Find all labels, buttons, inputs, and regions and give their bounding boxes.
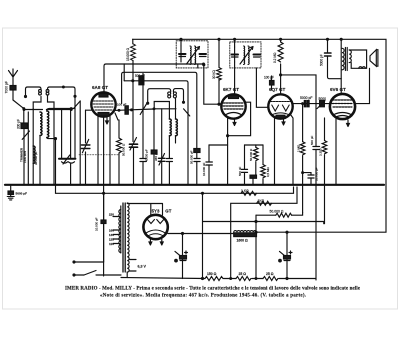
resistor 30 Kohm <box>217 38 222 104</box>
output transformer <box>340 38 366 93</box>
svg-text:6A8 GT: 6A8 GT <box>92 85 108 90</box>
taps <box>113 216 120 218</box>
svg-text:25 Ω: 25 Ω <box>239 272 247 276</box>
svg-text:15.000 Ω: 15.000 Ω <box>126 47 130 61</box>
coil bottom bars <box>23 101 80 110</box>
svg-text:50.000 Ω: 50.000 Ω <box>122 143 126 156</box>
HV wire to 5Y3 <box>127 204 162 216</box>
wave switch lever <box>13 100 24 109</box>
heater bottom line <box>126 272 128 278</box>
svg-text:50.000 pF: 50.000 pF <box>189 150 193 164</box>
capacitor blob on osc wire <box>151 150 157 154</box>
resistor 15.000 ohm <box>131 39 136 141</box>
filter cap 2 <box>279 232 292 278</box>
6K7 legs <box>227 118 229 185</box>
svg-text:1 KΩ: 1 KΩ <box>241 189 249 193</box>
tone cap 5000pF <box>325 38 342 78</box>
cap 50.000pF blob <box>194 149 200 186</box>
IF transformer 1 <box>176 38 208 68</box>
screen feed wire <box>104 64 204 92</box>
svg-text:500 pF: 500 pF <box>238 166 242 176</box>
500pF padder wire <box>124 64 188 185</box>
svg-text:10.000 pF: 10.000 pF <box>95 217 99 231</box>
6K7 plate to IFT2 <box>234 62 236 94</box>
svg-text:IMER RADIO - Mod. MILLY - Prim: IMER RADIO - Mod. MILLY - Prima e second… <box>65 287 361 292</box>
tube 6A8 GT <box>91 92 115 116</box>
IFT1 to 6K7 grid <box>203 64 222 106</box>
wire padder drop <box>142 73 144 158</box>
svg-text:0.2 MΩ: 0.2 MΩ <box>273 52 277 63</box>
resistor 150 ohm <box>205 277 223 281</box>
5Y3 output <box>168 233 234 235</box>
variable capacitor C-tune1 <box>59 155 75 164</box>
wire osc coil top <box>168 102 170 120</box>
switch <box>73 261 121 276</box>
wire osc coil bottom <box>168 136 170 158</box>
choke 1600 ohm <box>234 231 257 237</box>
screen line <box>203 222 324 224</box>
cathode bypass <box>313 134 320 280</box>
variable capacitor C-tune2 <box>81 139 90 152</box>
svg-text:150 Ω: 150 Ω <box>207 272 217 276</box>
AVC wire <box>281 75 316 134</box>
oscillator coupling loops <box>140 89 190 116</box>
trimmer arrow <box>22 131 29 139</box>
tube 6Q7 GT <box>268 94 292 118</box>
resistor 50.000 ohm B+ <box>256 213 303 279</box>
svg-text:0,5 MΩ: 0,5 MΩ <box>266 166 270 177</box>
svg-text:1 MΩ: 1 MΩ <box>297 144 301 152</box>
capacitor 100pF <box>270 76 275 90</box>
svg-text:5000 pF: 5000 pF <box>300 96 312 100</box>
gang tuning dashed link <box>79 154 119 156</box>
svg-text:1KΩ: 1KΩ <box>258 199 265 203</box>
cap 10000pF out <box>303 173 314 185</box>
svg-text:125: 125 <box>109 238 114 242</box>
padder coil <box>33 146 35 163</box>
heater arrow 6A8 <box>106 117 109 124</box>
svg-text:50.000 Ω: 50.000 Ω <box>270 210 284 214</box>
svg-text:220: 220 <box>109 213 114 217</box>
speaker <box>370 50 378 66</box>
top HT wire <box>133 39 387 232</box>
tube 5Y3 GT <box>143 215 167 239</box>
wire verticals left section <box>27 112 29 185</box>
svg-text:500 pF: 500 pF <box>310 135 314 145</box>
6V6 legs <box>335 119 337 186</box>
tube 6K7 GT <box>221 94 245 118</box>
main ground bus <box>5 184 384 186</box>
coupling caps 5000pF to 6V6 <box>293 101 331 109</box>
tuning coil windings <box>40 111 49 137</box>
svg-text:110: 110 <box>109 242 114 246</box>
svg-text:GT: GT <box>165 209 171 214</box>
5Y3 legs <box>149 239 152 245</box>
capacitor 7000pF antenna <box>10 86 16 101</box>
svg-text:140: 140 <box>109 233 114 237</box>
ground cap 5000pF <box>7 186 14 200</box>
6Q7 grid drop <box>280 75 282 94</box>
wire osc coil top right <box>175 98 177 119</box>
wire trimmer 365pF drop <box>161 109 163 159</box>
heater stubs <box>130 259 137 261</box>
capacitor 200pF <box>21 109 28 185</box>
resistor 1 Mohm <box>300 142 305 213</box>
grid leak vertical <box>302 104 304 142</box>
wire osc coil bottom right <box>175 136 177 143</box>
resistor 25 ohm b <box>263 277 278 281</box>
trimmer 500pF osc <box>158 154 165 186</box>
resistor 0.5 Mohm volume <box>261 145 266 185</box>
coil B top/bottom corners <box>47 109 74 112</box>
resistor 0.2 Mohm <box>278 38 283 76</box>
wire osc junction to bus <box>153 109 155 185</box>
resistor 25 ohm a <box>236 277 251 281</box>
IF transformer 2 <box>230 38 261 68</box>
6Q7 legs <box>274 118 276 186</box>
antenna coil L1 <box>25 87 42 109</box>
vertical drop left <box>202 193 204 278</box>
svg-text:1600 Ω: 1600 Ω <box>237 239 248 243</box>
svg-text:6,3 V: 6,3 V <box>138 265 147 269</box>
svg-text:5000 pF: 5000 pF <box>16 192 28 196</box>
svg-text:100 pF: 100 pF <box>264 76 274 80</box>
resistor 50.000 ohm <box>117 138 122 185</box>
svg-text:5Y3: 5Y3 <box>152 209 160 214</box>
below bus: heater line <box>56 186 294 193</box>
svg-text:7000 pF: 7000 pF <box>5 81 9 93</box>
resistor 1 Kohm heater <box>241 191 257 195</box>
trimmer cap oscillator grid <box>130 138 138 186</box>
cap 10000pF line <box>101 193 106 262</box>
diode load cluster <box>242 145 264 185</box>
svg-text:6K7 GT: 6K7 GT <box>223 87 239 92</box>
svg-text:30.000 pF: 30.000 pF <box>34 151 38 165</box>
svg-text:10.000 pF: 10.000 pF <box>202 162 206 176</box>
svg-text:1400 kc/s: 1400 kc/s <box>23 150 27 163</box>
line 2 with 1Kohm <box>231 187 297 279</box>
power transformer <box>119 203 129 272</box>
svg-text:30 KΩ: 30 KΩ <box>212 69 216 79</box>
tube 6V6 GT <box>330 94 355 119</box>
filter cap 1 <box>175 233 188 279</box>
svg-text:160: 160 <box>109 229 114 233</box>
svg-text:50.000 Ω: 50.000 Ω <box>249 148 253 161</box>
antenna <box>9 69 18 86</box>
svg-text:6Q7 GT: 6Q7 GT <box>269 87 286 92</box>
resistor 50.000 ohm diode <box>254 145 259 175</box>
svg-text:200 pF: 200 pF <box>17 119 21 129</box>
svg-text:6V6 GT: 6V6 GT <box>330 87 346 92</box>
6V6 plate wire <box>355 68 370 103</box>
svg-text:25 Ω: 25 Ω <box>266 272 274 276</box>
cap blob <box>250 175 257 178</box>
capacitor 40000 pF <box>140 159 146 186</box>
svg-text:«Note di servizio». Media freq: «Note di servizio». Media frequenza: 467… <box>100 294 307 299</box>
oscillator coil windings <box>169 119 177 136</box>
capacitor osc to bus <box>166 159 172 186</box>
choke to right <box>256 231 287 233</box>
osc grid wire <box>122 72 197 148</box>
tube 6A8 legs <box>97 116 99 185</box>
IFT2 to 6Q7 grid <box>256 68 268 107</box>
cap 10000pF cathode <box>206 145 228 185</box>
antenna coil L2 <box>46 86 76 109</box>
svg-text:5000: 5000 <box>319 97 327 101</box>
svg-text:365 pF: 365 pF <box>154 151 158 161</box>
cathode resistor <box>322 118 327 224</box>
capacitor 100pF grid <box>114 106 154 114</box>
svg-text:40000 pF: 40000 pF <box>145 149 149 162</box>
svg-text:5000 pF: 5000 pF <box>320 54 324 66</box>
